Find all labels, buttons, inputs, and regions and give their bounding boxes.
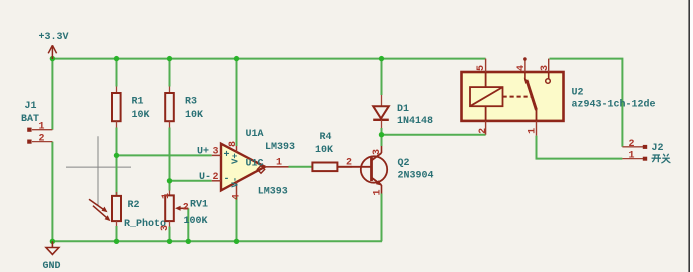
svg-text:1: 1 — [629, 151, 635, 162]
svg-text:V+: V+ — [231, 153, 241, 164]
op-amp pin number 8 — [228, 141, 239, 147]
J2 label 开关 (drawn strokes) — [652, 154, 671, 163]
svg-text:100K: 100K — [184, 216, 208, 227]
svg-text:LM393: LM393 — [265, 142, 295, 153]
node: rail/RV1 wiper — [186, 239, 191, 244]
wire: R3 bottom to node B to RV1 — [169, 128, 171, 191]
resistor R4 — [312, 163, 352, 172]
wire: relay pin1 to J2 pin1 — [537, 136, 623, 159]
svg-text:1: 1 — [39, 122, 45, 133]
svg-text:LM393: LM393 — [258, 187, 288, 198]
svg-text:D1: D1 — [397, 104, 409, 115]
svg-text:U-: U- — [199, 172, 211, 183]
wire: D1 top to rail — [381, 59, 383, 95]
wire: collector node to relay pin2 — [382, 134, 486, 136]
svg-text:10K: 10K — [315, 145, 333, 156]
op-amp open collector diamond — [257, 166, 264, 174]
svg-text:+3.3V: +3.3V — [39, 32, 69, 43]
svg-text:Q2: Q2 — [398, 158, 410, 169]
svg-text:4: 4 — [231, 194, 242, 200]
relay dashed actuator link — [503, 96, 532, 98]
svg-text:1N4148: 1N4148 — [397, 116, 433, 127]
svg-text:2: 2 — [629, 139, 635, 150]
crosshair cursor — [66, 136, 131, 206]
relay coil — [470, 72, 503, 121]
svg-text:5: 5 — [476, 65, 487, 71]
svg-text:2: 2 — [183, 202, 189, 213]
ground symbol GND — [46, 241, 59, 254]
wire: bottom GND rail — [52, 240, 382, 242]
wire: opamp out to R4 — [289, 166, 313, 168]
op-amp pin number 4 — [231, 194, 242, 200]
svg-text:1: 1 — [372, 189, 383, 195]
svg-text:R2: R2 — [128, 200, 140, 211]
wire: J1 pin1 up to +3.3V — [51, 59, 53, 130]
transistor Q2 2N3904 — [352, 146, 387, 194]
svg-text:3: 3 — [160, 225, 171, 231]
wire: RV1 bottom to rail — [169, 227, 171, 242]
svg-text:3: 3 — [213, 147, 219, 158]
relay U2 az943 — [462, 72, 564, 121]
wire: J1 pin2 down to GND rail — [51, 142, 53, 242]
connector J2 — [622, 145, 647, 161]
right window border — [688, 0, 690, 272]
node: rail/opamp pin8 — [234, 56, 239, 61]
svg-text:10K: 10K — [185, 110, 203, 121]
wire: R1 bottom to node A — [116, 128, 118, 197]
svg-text:R1: R1 — [132, 96, 144, 107]
diode D1 1N4148 — [373, 95, 389, 128]
power +3.3V symbol — [48, 45, 56, 59]
svg-text:GND: GND — [43, 261, 61, 272]
node: rail/D1 — [379, 56, 384, 61]
node: +3.3V corner — [50, 56, 55, 61]
svg-text:3: 3 — [540, 65, 551, 71]
svg-text:+: + — [224, 150, 230, 161]
svg-text:8: 8 — [228, 141, 239, 147]
op-amp pin stubs — [212, 146, 289, 197]
svg-text:BAT: BAT — [21, 114, 39, 125]
wire: Q2 emitter down to rail — [381, 194, 383, 242]
node A divider R1/R2 — [114, 153, 119, 158]
photoresistor R2 — [112, 192, 121, 226]
wire: RV1 wiper down to rail — [187, 208, 189, 241]
node B divider R3/RV1 — [167, 178, 172, 183]
op-amp U1A LM393 — [221, 144, 265, 191]
svg-text:V-: V- — [231, 177, 241, 188]
svg-text:3: 3 — [372, 149, 383, 155]
svg-text:U+: U+ — [197, 146, 209, 157]
node: collector/D1/relay coil — [379, 132, 384, 137]
potentiometer RV1 — [165, 191, 174, 227]
wires (green) — [52, 59, 622, 242]
svg-text:R3: R3 — [185, 96, 197, 107]
wire: relay pin3 to J2 pin2 — [550, 59, 623, 147]
svg-text:U1C: U1C — [246, 158, 264, 169]
connector J1 BAT — [27, 128, 52, 144]
node: rail/R2 — [114, 239, 119, 244]
wire: R2 bottom to rail — [116, 226, 118, 241]
svg-text:U1A: U1A — [246, 129, 264, 140]
svg-text:1: 1 — [276, 158, 282, 169]
wire: opamp pin4 down to rail — [236, 197, 238, 241]
node: rail/R1 — [114, 56, 119, 61]
svg-text:J2: J2 — [652, 143, 664, 154]
wire: node B to opamp - — [170, 180, 212, 182]
RV1 wiper arrow — [175, 206, 188, 211]
node: rail/opamp pin4 — [234, 239, 239, 244]
svg-text:2: 2 — [213, 172, 219, 183]
wire: opamp pin8 up to rail — [236, 59, 238, 146]
node: GND corner — [50, 239, 55, 244]
Q2 pin numbers 3,1 — [372, 149, 383, 155]
RV1 pin numbers 1,2,3 — [161, 193, 172, 199]
svg-text:RV1: RV1 — [190, 199, 208, 210]
svg-text:2: 2 — [39, 134, 45, 145]
svg-text:1: 1 — [528, 128, 539, 134]
svg-text:2: 2 — [478, 128, 489, 134]
svg-text:1: 1 — [161, 193, 172, 199]
svg-text:U2: U2 — [572, 88, 584, 99]
svg-text:az943-1ch-12de: az943-1ch-12de — [572, 99, 656, 111]
relay pin stubs — [486, 59, 549, 136]
svg-text:2: 2 — [346, 158, 352, 169]
svg-text:4: 4 — [516, 65, 527, 71]
wire: R3 top — [169, 59, 171, 87]
svg-text:10K: 10K — [132, 110, 150, 121]
wire: D1 bottom to collector node — [381, 128, 383, 146]
relay switch arm — [525, 72, 537, 121]
relay pin numbers 5,4,3,2,1 — [476, 65, 487, 71]
relay pin4 unconnected dot — [523, 57, 527, 61]
svg-text:-: - — [224, 174, 230, 185]
wire: +3.3V top rail — [52, 58, 485, 60]
svg-text:2N3904: 2N3904 — [398, 171, 434, 182]
resistor R1 — [112, 87, 121, 128]
wire: node A to opamp + — [117, 154, 212, 156]
node: rail/RV1 pin3 — [167, 239, 172, 244]
light arrows of R2 — [89, 199, 111, 221]
svg-text:J1: J1 — [25, 101, 37, 112]
resistor R3 — [165, 87, 174, 128]
relay NO contact — [546, 79, 551, 84]
wire: R1 top — [116, 59, 118, 87]
node: rail/R3 — [167, 56, 172, 61]
svg-text:R4: R4 — [320, 132, 332, 143]
